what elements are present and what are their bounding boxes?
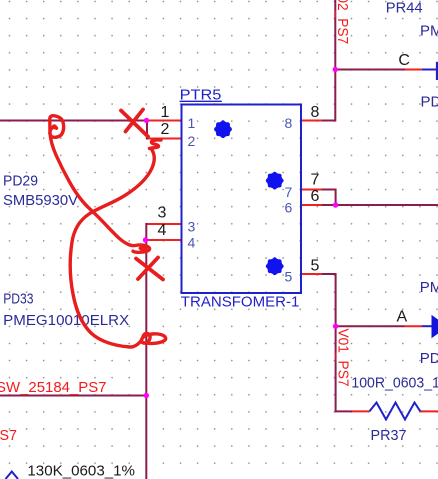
svg-text:7: 7 (311, 172, 320, 189)
svg-text:SMB5930V: SMB5930V (3, 192, 78, 209)
svg-text:PD33: PD33 (3, 291, 33, 308)
svg-text:PMEG: PMEG (420, 23, 438, 40)
diode D-bottom triangle (432, 315, 438, 338)
svg-text:PMEG: PMEG (420, 279, 438, 296)
junction node SW (144, 393, 149, 398)
wire net A horizontal y=326.2 (336, 325, 405, 327)
svg-text:8: 8 (311, 104, 320, 121)
junction node pin1 (144, 118, 149, 123)
svg-text:8: 8 (285, 115, 293, 131)
wire net pin6 horizontal y=205 (322, 204, 438, 206)
diode D-top clipped at right edge (422, 69, 438, 71)
svg-text:3: 3 (158, 205, 167, 222)
junction node pin6 (333, 202, 338, 207)
svg-text:PD34: PD34 (420, 350, 438, 367)
annotation curve 2 (pin2 to loop B) (70, 150, 165, 347)
transformer U PTR5 body (182, 105, 302, 294)
svg-text:PR44: PR44 (386, 0, 423, 17)
resistor PR37 zigzag (369, 403, 420, 420)
junction node C (333, 67, 338, 72)
resistor PR37 left lead (352, 410, 369, 412)
wire top vertical x=335.3 (322, 0, 335, 121)
polarity dot winding 1 (214, 120, 232, 138)
svg-text:7: 7 (285, 184, 293, 200)
annotation X mark 1 (121, 110, 148, 137)
junction node A (333, 324, 338, 329)
svg-text:V01_PS7: V01_PS7 (335, 329, 352, 387)
diode D-bottom anode lead (422, 325, 432, 327)
svg-text:PS7: PS7 (0, 427, 17, 444)
annotation squiggle at pin2 (150, 140, 162, 149)
annotation spiral loop A (50, 116, 64, 138)
pin 8 stub (301, 120, 322, 122)
red lead net A (405, 325, 423, 327)
wire pin7 to pin6 connector (322, 190, 336, 206)
wire vertical connector pin1-pin2 (146, 120, 148, 140)
svg-text:SW_25184_PS7: SW_25184_PS7 (0, 379, 107, 396)
svg-text:4: 4 (188, 235, 196, 251)
annotation curve 1 (loop A to pin4 hook) (50, 133, 150, 252)
wire resistor horizontal y=411.4 (335, 410, 353, 412)
svg-text:130K_0603_1%: 130K_0603_1% (27, 463, 135, 479)
resistor PR33 top caret clipped (6, 472, 19, 479)
resistor PR37 right lead (420, 410, 438, 412)
svg-text:6: 6 (311, 188, 320, 205)
wire bottom horizontal y=395.5 (0, 395, 147, 397)
pin 3 stub (148, 223, 182, 225)
pin 5 stub (301, 273, 322, 275)
annotation X mark 2 (136, 258, 163, 280)
svg-text:TRANSFOMER-1: TRANSFOMER-1 (181, 294, 300, 311)
wire pin5 down x=335.6 (322, 274, 336, 411)
svg-text:2: 2 (188, 133, 196, 149)
pin 2 stub (148, 138, 182, 140)
polarity dot winding 2 (266, 172, 284, 190)
svg-text:PD29: PD29 (3, 172, 38, 189)
svg-text:A: A (397, 308, 408, 325)
pin 1 stub (148, 120, 182, 122)
pin 7 stub (301, 189, 322, 191)
wire long vertical x=146.3 pin3 to bottom (146, 224, 148, 479)
svg-text:6: 6 (285, 200, 293, 216)
svg-text:1: 1 (188, 115, 196, 131)
svg-text:5: 5 (311, 258, 320, 275)
svg-text:C: C (398, 52, 410, 69)
svg-text:PMEG10010ELRX: PMEG10010ELRX (3, 312, 129, 329)
svg-text:PR37: PR37 (371, 427, 407, 444)
svg-text:5: 5 (285, 269, 293, 285)
svg-text:2: 2 (161, 121, 170, 138)
polarity dot winding 3 (266, 257, 284, 275)
svg-text:PD33: PD33 (421, 94, 438, 111)
pin 4 stub (148, 239, 182, 241)
svg-text:1: 1 (161, 104, 170, 121)
red lead net C (405, 69, 422, 71)
svg-text:3: 3 (188, 219, 196, 235)
junction node pin4 (143, 237, 148, 242)
wire net C horizontal y=69.5 (335, 69, 405, 71)
pin 6 stub (301, 204, 322, 206)
wire net left horizontal y=120.5 (0, 120, 147, 122)
svg-text:4: 4 (158, 222, 167, 239)
svg-text:100R_0603_1%: 100R_0603_1% (351, 375, 438, 392)
svg-text:V02_PS7: V02_PS7 (334, 0, 351, 44)
